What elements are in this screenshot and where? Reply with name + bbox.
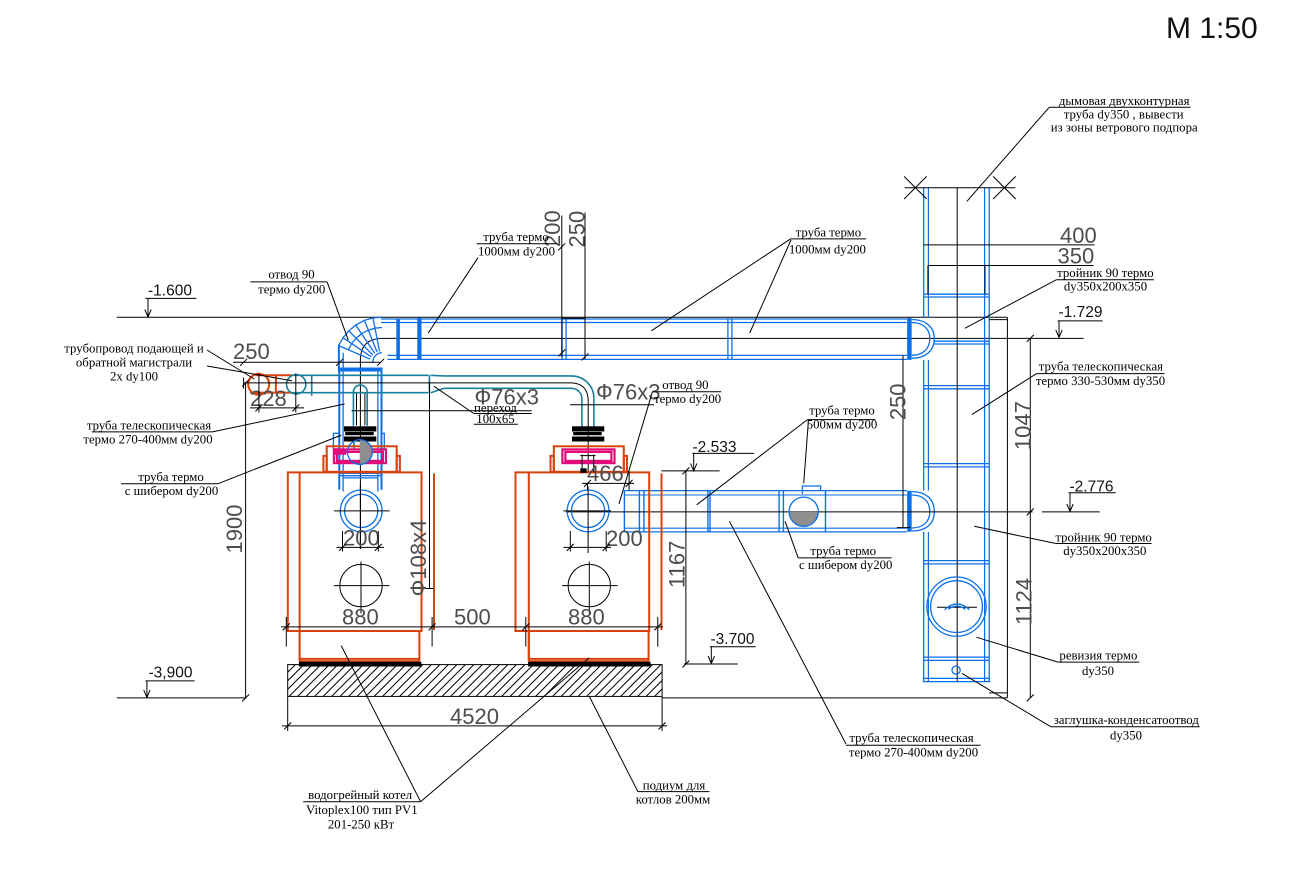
- label отвод 90 термо dy200 (lower duct): [619, 378, 721, 504]
- svg-text:dy350: dy350: [1110, 729, 1142, 743]
- label трубопровод подающей и обратной магистрали 2x dy100: [64, 342, 292, 384]
- top duct end joint at chimney: [907, 318, 912, 360]
- svg-text:250: 250: [565, 211, 590, 248]
- plinth: [528, 631, 530, 661]
- φ108x4 reference line: [429, 381, 431, 589]
- svg-text:труба термо: труба термо: [809, 403, 875, 417]
- chimney top edge: [905, 187, 1016, 189]
- dim 4520: [282, 697, 667, 731]
- label водогрейный котел Vitoplex100 тип PV1 201-250 кВт: [303, 646, 589, 832]
- top duct joint 2: [417, 318, 421, 360]
- svg-text:ревизия термо: ревизия термо: [1059, 649, 1137, 663]
- outer gored arc: [339, 317, 382, 345]
- svg-text:1124: 1124: [1012, 578, 1037, 625]
- dim 200 boiler1: [337, 526, 385, 552]
- reducer переход 100x65: [428, 375, 430, 393]
- svg-text:котлов 200мм: котлов 200мм: [636, 793, 711, 807]
- dim 350 (chimney): [928, 244, 1094, 269]
- label тройник 90 термо dy350x200x350 (upper): [965, 266, 1154, 328]
- roof passage black edges: [927, 266, 929, 295]
- svg-text:228: 228: [250, 386, 287, 411]
- svg-text:М 1:50: М 1:50: [1166, 12, 1258, 45]
- middle gored arc: [348, 328, 382, 350]
- dim rotated 250 (top): [565, 211, 590, 361]
- svg-text:Vitoplex100 тип PV1: Vitoplex100 тип PV1: [306, 803, 418, 817]
- reference line of duct top (-1.600 level): [117, 316, 1008, 318]
- vertical flue duct from elbow to boiler1: [333, 371, 384, 491]
- top flue duct dy200 walls: [381, 319, 907, 359]
- teal elbow down to boiler2: [572, 376, 594, 398]
- label труба телескопическая термо 270-400мм dy200 (bottom right): [729, 521, 980, 760]
- svg-text:1000мм dy200: 1000мм dy200: [478, 244, 555, 258]
- compensator (bellows) boiler1: [344, 426, 376, 441]
- label труба термо с шибером dy200 (left): [121, 435, 341, 498]
- supply/return water pipes 2x dy100 (teal): [244, 374, 594, 472]
- dim 880 / 500 / 880: [281, 605, 663, 647]
- elbow bottom flange: [338, 368, 383, 372]
- X mark left: [904, 176, 927, 199]
- svg-text:труба термо: труба термо: [796, 226, 862, 240]
- revision hatch (ревизия термо): [927, 577, 986, 636]
- svg-text:880: 880: [342, 605, 379, 630]
- svg-text:тройник 90 термо: тройник 90 термо: [1057, 266, 1153, 280]
- svg-text:труба термо: труба термо: [138, 470, 204, 484]
- svg-text:350: 350: [1058, 244, 1095, 269]
- control panel magenta: [562, 449, 614, 463]
- dim 400 (chimney): [924, 223, 1097, 248]
- svg-text:100x65: 100x65: [476, 412, 514, 426]
- label труба телескопическая термо 330-530мм dy350: [972, 360, 1165, 415]
- hood: [554, 446, 624, 472]
- svg-text:трубопровод подающей и: трубопровод подающей и: [64, 342, 204, 356]
- svg-text:подиум для: подиум для: [643, 779, 706, 793]
- svg-text:dy350: dy350: [1082, 664, 1114, 678]
- svg-text:4520: 4520: [450, 704, 499, 729]
- floor line: [662, 697, 1007, 699]
- svg-text:200: 200: [343, 526, 380, 551]
- svg-text:1000мм dy200: 1000мм dy200: [789, 243, 866, 257]
- dim 250 (pipes offset, upper-left): [233, 339, 384, 366]
- label Ф76x3 (right): [570, 380, 660, 405]
- condensate drain plug (заглушка): [952, 666, 960, 674]
- lower duct end joint at chimney: [907, 491, 912, 532]
- lower duct start cap: [623, 491, 625, 532]
- centerline arc in elbow: [360, 338, 380, 358]
- svg-text:466: 466: [587, 461, 624, 486]
- centerline of top duct: [381, 337, 1084, 339]
- top duct joint 4 (pair): [727, 318, 729, 359]
- boiler2 flue stub into hood: [580, 455, 595, 473]
- svg-text:1167: 1167: [665, 541, 690, 588]
- svg-text:отвод 90: отвод 90: [268, 268, 314, 282]
- hood: [327, 446, 397, 472]
- base plate: [528, 662, 650, 667]
- label тройник 90 термо dy350x200x350 (lower): [974, 526, 1152, 558]
- svg-text:с шибером dy200: с шибером dy200: [799, 558, 892, 572]
- centerline of boiler1 flue drop: [359, 359, 361, 550]
- flue outlet circles: [567, 490, 609, 532]
- top duct flange joint at elbow: [396, 319, 400, 360]
- svg-text:с шибером dy200: с шибером dy200: [125, 484, 218, 498]
- svg-text:водогрейный котел: водогрейный котел: [308, 788, 413, 802]
- svg-text:заглушка-конденсатоотвод: заглушка-конденсатоотвод: [1054, 713, 1200, 727]
- dim 200 boiler2: [564, 526, 643, 552]
- label переход 100x65: [434, 386, 532, 426]
- burner circle: [568, 564, 610, 606]
- svg-text:250: 250: [233, 339, 270, 364]
- svg-text:Ф76x3: Ф76x3: [475, 385, 539, 410]
- label подиум для котлов 200мм: [589, 697, 710, 807]
- level mark -1.600: [145, 283, 197, 318]
- level mark -3.700: [684, 631, 756, 664]
- level mark -3,900: [117, 665, 247, 698]
- flue outlet circles: [340, 490, 382, 532]
- dim 250 (chimney left, vertical): [886, 356, 911, 528]
- label ревизия термо dy350: [976, 637, 1139, 678]
- lower duct end cap: [912, 492, 935, 531]
- svg-text:880: 880: [568, 605, 605, 630]
- svg-text:труба термо: труба термо: [483, 230, 549, 244]
- svg-text:500: 500: [454, 605, 491, 630]
- orange pipe end: [248, 374, 269, 395]
- centerline of lower duct: [566, 511, 1033, 513]
- label труба телескопическая термо 270-400мм dy200 (left): [83, 404, 344, 447]
- throat arc: [373, 353, 382, 363]
- svg-text:250: 250: [886, 383, 911, 420]
- X mark right: [993, 176, 1016, 199]
- svg-text:обратной магистрали: обратной магистрали: [76, 356, 192, 370]
- svg-text:из зоны ветрового подпора: из зоны ветрового подпора: [1051, 121, 1198, 135]
- socket joint above boiler1: [340, 472, 381, 474]
- elbow left edge: [338, 345, 340, 372]
- burner circle: [340, 564, 382, 606]
- compensator (bellows) boiler2: [572, 426, 604, 441]
- svg-text:тройник 90 термо: тройник 90 термо: [1055, 530, 1151, 544]
- dim rotated 200 (top): [540, 210, 585, 357]
- chimney centerline: [956, 188, 958, 682]
- svg-text:200: 200: [606, 526, 643, 551]
- label дымовая двухконтурная труба dy350: [967, 94, 1198, 202]
- dim 1047 / 1124 (vertical, right of chimney): [1011, 335, 1037, 702]
- svg-text:труба телескопическая: труба телескопическая: [1039, 360, 1163, 374]
- svg-text:термо dy200: термо dy200: [258, 283, 325, 297]
- svg-text:1047: 1047: [1011, 401, 1036, 450]
- label Ф76x3 (left): [352, 385, 539, 411]
- svg-text:термо 270-400мм dy200: термо 270-400мм dy200: [849, 746, 978, 760]
- body: [288, 472, 422, 631]
- label заглушка-конденсатоотвод dy350: [962, 673, 1200, 742]
- chimney dy350 walls: [924, 188, 990, 682]
- label труба термо с шибером dy200 (bottom): [785, 521, 892, 572]
- top duct joint 3 (pair): [561, 318, 563, 359]
- gore seams: [373, 318, 380, 351]
- shiber (damper) in lower duct: [789, 486, 820, 526]
- svg-text:труба телескопическая: труба телескопическая: [87, 419, 211, 433]
- body: [516, 472, 650, 631]
- telescopic sleeve tabs: [333, 433, 339, 449]
- building wall line: [1006, 317, 1008, 698]
- svg-text:1900: 1900: [222, 505, 247, 554]
- svg-text:Ф76x3: Ф76x3: [596, 380, 660, 405]
- svg-text:2x dy100: 2x dy100: [110, 370, 158, 384]
- pipe centerline: [244, 382, 572, 384]
- svg-text:-1.600: -1.600: [148, 283, 192, 300]
- svg-text:труба термо: труба термо: [810, 544, 876, 558]
- dim 466: [582, 461, 634, 490]
- lower duct joint 4: [825, 491, 827, 532]
- control panel magenta: [335, 450, 347, 455]
- svg-text:труба dy350 , вывести: труба dy350 , вывести: [1064, 107, 1184, 121]
- label труба термо 1000мм dy200 (left): [428, 230, 556, 333]
- base plate: [299, 662, 421, 667]
- plinth: [299, 631, 301, 661]
- chimney joints (horizontal): [924, 294, 990, 660]
- label отвод 90 термо dy200 (top-left): [250, 268, 348, 341]
- svg-text:-3,900: -3,900: [149, 665, 193, 682]
- lower duct joint 3 (pair): [778, 491, 780, 532]
- label труба термо 1000мм dy200 (right): [651, 226, 866, 333]
- svg-text:термо dy200: термо dy200: [654, 392, 721, 406]
- dim 1900 (vertical, left): [222, 380, 249, 702]
- boiler1 flue socket (gray half disk): [348, 440, 373, 465]
- level mark -2.776: [1042, 478, 1116, 512]
- lower duct joint 2 (pair): [707, 491, 709, 532]
- teal pipe end circle: [287, 375, 306, 394]
- svg-text:Ф108x4: Ф108x4: [406, 520, 431, 597]
- svg-text:термо 330-530мм dy350: термо 330-530мм dy350: [1036, 374, 1165, 388]
- label труба термо 500мм dy200: [697, 403, 878, 505]
- podium for boilers (hatched): [260, 660, 700, 700]
- dim 228 (pipe spacing): [250, 374, 304, 413]
- boiler 2 водогрейный котел Vitoplex100: [516, 446, 662, 666]
- chimney bottom cap: [923, 677, 991, 679]
- elbow отвод 90 термо dy200 (gored bend): [339, 317, 382, 363]
- lower duct joint 1 (pair): [638, 491, 640, 532]
- svg-text:dy350x200x350: dy350x200x350: [1064, 279, 1147, 293]
- dim 1167 (vertical): [665, 467, 690, 667]
- level mark -2.533: [661, 439, 754, 471]
- boiler1 connection arch: [353, 385, 367, 426]
- lower flue duct dy200 (boiler2 to chimney): [624, 491, 907, 532]
- teal stubs below compensator b1: [353, 441, 355, 450]
- svg-text:-3.700: -3.700: [711, 631, 755, 648]
- teal pipe walls (right section): [444, 375, 572, 377]
- boiler 1 водогрейный котел Vitoplex100: [288, 446, 434, 666]
- svg-text:dy350x200x350: dy350x200x350: [1063, 544, 1146, 558]
- svg-text:термо 270-400мм dy200: термо 270-400мм dy200: [83, 433, 212, 447]
- level mark -1.729: [1056, 304, 1103, 337]
- teal pipe walls (left section): [292, 374, 429, 376]
- svg-text:труба телескопическая: труба телескопическая: [849, 731, 973, 745]
- svg-text:-1.729: -1.729: [1059, 304, 1103, 321]
- svg-text:дымовая двухконтурная: дымовая двухконтурная: [1059, 94, 1190, 108]
- svg-text:201-250 кВт: 201-250 кВт: [328, 817, 395, 831]
- svg-text:500мм dy200: 500мм dy200: [807, 418, 878, 432]
- top duct end cap: [912, 320, 935, 359]
- svg-text:отвод 90: отвод 90: [662, 378, 708, 392]
